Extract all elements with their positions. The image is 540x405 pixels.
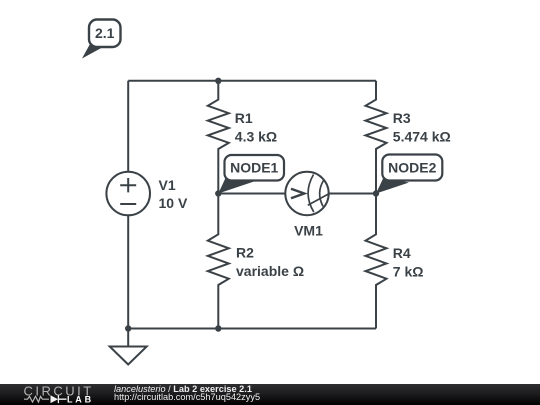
node NODE2 bbox=[376, 155, 442, 194]
wire VM1 to NODE2 bbox=[329, 193, 376, 195]
wire V1 top lead bbox=[127, 81, 129, 172]
resistor R4 bbox=[366, 194, 387, 329]
wire top rail left (V1 to R1 top) bbox=[128, 80, 218, 82]
svg-text:NODE2: NODE2 bbox=[388, 159, 436, 175]
svg-text:NODE1: NODE1 bbox=[230, 160, 278, 176]
footer bar bbox=[0, 384, 540, 405]
svg-text:V1: V1 bbox=[159, 177, 176, 193]
footer title bbox=[114, 385, 252, 394]
wire bottom rail right (R2 bottom to R4 bottom) bbox=[218, 328, 376, 330]
resistor R1 bbox=[208, 81, 229, 194]
svg-text:R1: R1 bbox=[235, 110, 253, 126]
ground bbox=[110, 347, 147, 365]
voltmeter VM1 bbox=[285, 172, 329, 215]
svg-text:variable Ω: variable Ω bbox=[236, 263, 304, 279]
voltage source V1 bbox=[106, 172, 150, 216]
svg-text:10 V: 10 V bbox=[159, 195, 188, 211]
node NODE1 bbox=[218, 155, 284, 194]
svg-text:4.3 kΩ: 4.3 kΩ bbox=[235, 129, 277, 145]
CircuitLab logo bbox=[0, 384, 110, 405]
svg-text:R4: R4 bbox=[393, 245, 411, 261]
svg-text:7 kΩ: 7 kΩ bbox=[393, 264, 424, 280]
footer url bbox=[114, 393, 260, 402]
svg-text:5.474 kΩ: 5.474 kΩ bbox=[393, 129, 451, 145]
svg-text:2.1: 2.1 bbox=[95, 25, 115, 41]
junction NODE2 bbox=[373, 190, 379, 196]
svg-text:R2: R2 bbox=[236, 245, 254, 261]
callout 2.1 bbox=[82, 20, 121, 59]
wire V1 bottom lead bbox=[127, 215, 129, 328]
svg-text:LAB: LAB bbox=[67, 395, 94, 405]
resistor R2 bbox=[208, 194, 229, 329]
junction NODE1 bbox=[215, 190, 221, 196]
junction R1 top bbox=[215, 78, 221, 84]
wire ground stem bbox=[127, 329, 129, 347]
wire top rail right (R1 top to R3 top) bbox=[218, 80, 376, 82]
wire NODE1 to VM1 bbox=[218, 193, 285, 195]
junction ground bbox=[125, 325, 131, 331]
svg-text:R3: R3 bbox=[393, 110, 411, 126]
svg-text:VM1: VM1 bbox=[294, 223, 323, 239]
junction R2 bottom bbox=[215, 325, 221, 331]
resistor R3 bbox=[366, 81, 387, 194]
wire bottom rail left (ground to R2 bottom) bbox=[128, 328, 218, 330]
